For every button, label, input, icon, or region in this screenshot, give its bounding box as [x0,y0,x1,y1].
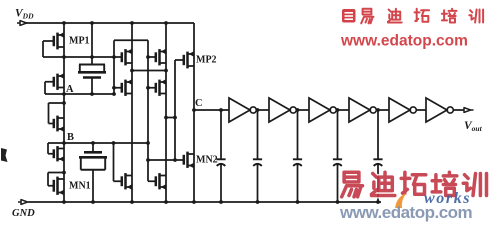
wire column4 VDD corner down [193,23,195,110]
inverter U2 [269,98,296,122]
wire mid tie column2-column3 [132,70,166,72]
capacitor load C3 on node C [216,110,225,202]
wire top jog to x148 [114,39,148,41]
watermark top-right logo [342,9,356,23]
wire PU3 gate lead to x148 [148,56,156,58]
svg-text:MN2: MN2 [196,154,218,165]
svg-text:www.edatop.com: www.edatop.com [340,33,468,50]
inverter U3 [309,98,336,122]
inverter U5 [389,98,416,122]
inverter U6 [426,98,453,122]
transistor MP1 (diode-connected PMOS) [54,32,90,49]
wire column4 C down to GND [193,110,195,202]
VDD rail [26,22,194,24]
wire NA gate to node B rail [114,180,122,182]
watermark bottom-right works logo [395,193,407,208]
transistor MN2 (output NMOS) [184,152,218,168]
wire bias vertical x114 [113,40,115,94]
svg-text:C: C [195,98,203,109]
wire inverter U1 output [256,109,269,111]
node A [62,92,66,96]
wire inverter U2 output [296,109,309,111]
Vout terminal [464,108,471,113]
watermark bottom-right text yidituopeixun large [342,172,487,197]
wire MN2 gate lead [148,159,184,161]
node B [62,141,66,145]
capacitor load C7 [376,108,380,112]
transistor NA column2 [122,173,132,189]
transistor PU2 column2 [122,49,132,66]
node A rail [64,93,114,95]
svg-text:GND: GND [12,208,35,219]
wire inverter U3 output [336,109,349,111]
wire NB gate lead to x148 [148,180,156,182]
transistor MN1 (diode-connected NMOS) [54,177,91,195]
MOS capacitor C2 (gate to node B, source-drain tied to ground) [79,143,107,202]
wire PL2 gate lead [114,87,122,89]
wire inverter U5 output [416,109,426,111]
svg-text:MP2: MP2 [196,55,217,66]
inverter U1 [229,98,256,122]
GND terminal [21,200,28,205]
watermark top-right text yidituopeixun [361,9,483,24]
svg-text:MN1: MN1 [69,180,91,191]
MOS capacitor C1 (source-drain tied to VDD, gate to node A) [78,23,106,94]
wire MN1 gate-drain tie [48,185,54,187]
wire column3 [165,23,167,202]
wire inverter U4 output [376,109,389,111]
wire MP1 gate-drain tie [43,40,54,42]
signal wire node C to inverter chain [194,109,229,111]
wire column3 jog to x175 [166,117,175,119]
scan blotch left edge [1,148,8,162]
VDD terminal [20,21,27,26]
transistor PL3 column3 [156,79,166,96]
capacitor load C5 [296,108,300,112]
wire column1 [63,23,65,202]
GND rail [28,201,381,203]
transistor P3 column1 [54,116,64,132]
wire PL3 gate lead to x148 [148,87,156,89]
transistor PU3 column3 [156,49,166,66]
transistor P2 column1 [54,73,64,90]
capacitor load C6 [336,108,340,112]
transistor P4 column1 [54,146,64,161]
svg-text:www.edatop.com: www.edatop.com [339,203,473,222]
wire P4 gate to node B [48,153,54,155]
wire bias line MP1 drain to PU2 gate [64,56,122,58]
wire bias vertical x148 [147,40,149,181]
wire column2 [131,23,133,202]
wire inverter U6 output [453,109,464,111]
transistor MP2 (output PMOS) [184,51,217,68]
svg-text:B: B [67,132,74,143]
node B rail [64,142,148,144]
wire P2 gate to node A [45,81,54,83]
wire MP2 gate vertical x175 [175,59,184,61]
wire P3 gate tie up [49,123,54,125]
transistor NB column3 [156,173,166,189]
svg-text:MP1: MP1 [69,36,90,47]
capacitor load C4 [256,108,260,112]
inverter U4 [349,98,376,122]
transistor PL2 column2 [122,79,132,96]
node C [192,108,196,112]
wire PU2 mid junction [130,69,134,73]
